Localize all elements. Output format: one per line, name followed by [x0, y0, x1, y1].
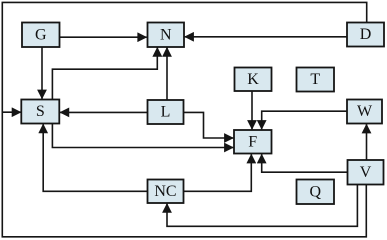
svg-text:N: N [160, 26, 172, 43]
svg-text:Q: Q [309, 183, 321, 200]
svg-text:L: L [161, 104, 171, 121]
svg-text:D: D [360, 26, 372, 43]
svg-text:K: K [247, 71, 259, 88]
svg-text:G: G [35, 26, 47, 43]
svg-text:S: S [36, 103, 45, 120]
svg-text:NC: NC [154, 183, 176, 200]
svg-text:V: V [360, 164, 372, 181]
svg-text:F: F [248, 133, 257, 150]
svg-text:W: W [357, 103, 373, 120]
svg-text:T: T [310, 71, 320, 88]
